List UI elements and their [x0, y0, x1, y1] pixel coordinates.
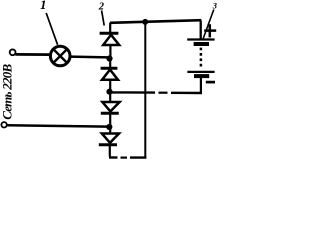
node A (junction dot, lamp / VD1 / VD2): [106, 55, 112, 61]
diode VD3 (pointing down): [101, 92, 120, 127]
svg-text:1: 1: [40, 0, 47, 12]
wire: mains bottom terminal to node C: [7, 125, 107, 126]
battery GB1 bottom cell: short plate: [194, 74, 209, 78]
minus sign: [206, 81, 215, 84]
wire: plus rail down to battery GB1: [200, 21, 202, 40]
node D (junction dot on plus rail): [142, 19, 148, 25]
terminal X1 (mains top): [10, 49, 16, 55]
diode VD4 (bottom, pointing down): [99, 127, 119, 157]
battery GB1 bottom cell: long plate: [187, 71, 214, 73]
battery GB1 top cell: short plate (-): [194, 42, 209, 46]
wire: top plus rail to battery: [110, 20, 201, 23]
diode VD1 (top, pointing up): [100, 23, 120, 57]
wire: lamp to node A: [70, 55, 108, 58]
wire: terminal X1 to lamp: [15, 53, 50, 56]
svg-text:3: 3: [212, 1, 218, 11]
dashed line (intermediate cells): [200, 48, 203, 69]
label 1 leader line: [46, 13, 57, 45]
wire: node B to battery minus (crosses vertical wire, no junction): [112, 78, 202, 94]
label 2 leader line: [102, 11, 105, 26]
node C (junction dot, VD3 / VD4 / mains bottom): [106, 124, 112, 130]
battery GB1 top cell: long plate (+): [187, 38, 214, 40]
terminal X2 (mains bottom): [1, 122, 6, 127]
label 3 leader line: [203, 10, 214, 39]
wire: chain bottom, right then up to plus rail: [109, 22, 146, 158]
node B (junction dot, minus output): [106, 89, 112, 95]
diode VD2 (pointing up): [101, 59, 118, 92]
svg-text:2: 2: [98, 2, 105, 13]
lamp HL1 (circle with X): [50, 46, 70, 66]
plus sign: [204, 24, 216, 37]
svg-text:Сеть 220В: Сеть 220В: [0, 63, 15, 119]
